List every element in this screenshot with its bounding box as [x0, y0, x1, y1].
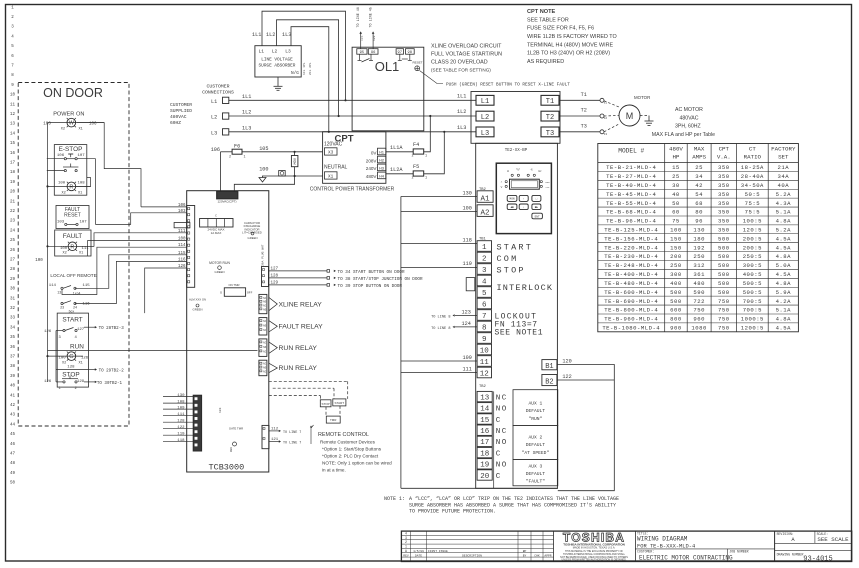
svg-text:SEE TABLE FOR: SEE TABLE FOR — [527, 17, 569, 23]
svg-text:14: 14 — [10, 132, 16, 136]
keypad buttons — [507, 195, 517, 201]
svg-text:480VAC: 480VAC — [170, 114, 187, 120]
wire 115 harness — [75, 255, 187, 288]
svg-text:NOTE: Only 1 option can be wir: NOTE: Only 1 option can be wired — [322, 460, 392, 465]
svg-text:40A: 40A — [778, 182, 790, 189]
svg-text:250:5: 250:5 — [743, 253, 762, 260]
svg-text:600: 600 — [670, 307, 682, 314]
wire 118 (door cable) — [163, 441, 193, 443]
svg-text:DEFAULT: DEFAULT — [526, 408, 546, 414]
svg-text:CONTROL POWER TRANSFORMER: CONTROL POWER TRANSFORMER — [310, 187, 395, 193]
svg-text:200:5: 200:5 — [743, 244, 762, 251]
pilot lamp inside E-STOP — [67, 182, 76, 191]
svg-text:29: 29 — [10, 278, 16, 282]
svg-text:"%": "%" — [516, 167, 521, 171]
svg-text:in at a time.: in at a time. — [322, 467, 346, 472]
svg-text:V.A.: V.A. — [717, 154, 731, 161]
svg-text:H4: H4 — [379, 175, 384, 179]
svg-text:t1: t1 — [604, 102, 608, 105]
svg-text:1L2: 1L2 — [242, 110, 251, 116]
svg-text:111: 111 — [178, 230, 186, 234]
board 120VAC input connector — [217, 191, 238, 198]
OL1 NC contact 95-96 — [359, 54, 361, 60]
wire surge absorber L3 tap — [291, 27, 329, 132]
svg-text:107: 107 — [80, 221, 88, 225]
svg-text:-%: -% — [529, 168, 533, 171]
svg-text:t3: t3 — [604, 133, 608, 136]
wire run relay feed (long horizontal) — [48, 350, 258, 352]
svg-text:480V: 480V — [366, 174, 378, 179]
interlock jumper 4-5 — [466, 278, 475, 291]
svg-text:MON: MON — [510, 198, 515, 201]
svg-text:126: 126 — [81, 357, 89, 361]
svg-text:RED: RED — [230, 447, 233, 452]
svg-text:120: 120 — [562, 358, 571, 364]
svg-text:180: 180 — [693, 235, 705, 242]
svg-text:NOTE 1:: NOTE 1: — [384, 496, 405, 502]
svg-text:TE-B-21-MLD-4: TE-B-21-MLD-4 — [606, 164, 656, 171]
OL1 NO contact 97-98 — [399, 54, 401, 60]
svg-text:42: 42 — [10, 404, 16, 408]
wire to 28TB2-3 — [84, 326, 96, 328]
wire 100 to drive — [401, 211, 477, 213]
svg-text:35: 35 — [10, 336, 16, 340]
contactor terminal T2 — [541, 111, 559, 121]
svg-text:1L2: 1L2 — [457, 109, 466, 115]
svg-text:HP: HP — [672, 154, 679, 161]
svg-text:119: 119 — [177, 432, 185, 436]
svg-text:4.5A: 4.5A — [776, 244, 792, 251]
svg-text:111: 111 — [463, 366, 472, 372]
svg-text:T1: T1 — [546, 98, 554, 106]
svg-text:OFF: OFF — [247, 292, 253, 295]
svg-text:16: 16 — [10, 152, 16, 156]
terminal TB2-13 — [477, 391, 492, 401]
wire 1L1 phase rail — [229, 99, 476, 101]
svg-text:108: 108 — [177, 400, 185, 404]
svg-text:MAX: MAX — [694, 146, 705, 153]
svg-text:1L1: 1L1 — [252, 32, 261, 38]
svg-text:X1: X1 — [79, 128, 83, 132]
svg-text:750: 750 — [693, 307, 705, 314]
svg-text:PUSH (GREEN) RESET BUTTON TO R: PUSH (GREEN) RESET BUTTON TO RESET X-LIN… — [446, 82, 570, 87]
svg-text:RATIO: RATIO — [744, 154, 762, 161]
board lower-left cable connector — [193, 395, 201, 451]
contactor terminal L3 — [476, 127, 494, 137]
wire bus to drive terminals — [400, 197, 402, 489]
wire 119 (door cable) — [163, 434, 193, 436]
svg-text:DRAWING NUMBER: DRAWING NUMBER — [777, 552, 804, 556]
svg-text:NO: NO — [496, 462, 508, 470]
svg-text:192: 192 — [693, 244, 705, 251]
svg-text:41: 41 — [10, 394, 16, 398]
svg-text:5.2A: 5.2A — [776, 191, 792, 198]
svg-text:60HZ: 60HZ — [170, 120, 181, 126]
svg-text:1A MAX: 1A MAX — [211, 231, 222, 235]
svg-text:TE-B-45-MLD-4: TE-B-45-MLD-4 — [606, 191, 656, 198]
svg-text:118: 118 — [177, 439, 185, 443]
svg-text:MAX FLA and HP per Table: MAX FLA and HP per Table — [652, 132, 715, 138]
svg-text:TO 38 START/STOP JUNCTION ON: TO 38 START/STOP JUNCTION ON DOOR — [338, 277, 424, 282]
svg-text:TE-B-220-MLD-4: TE-B-220-MLD-4 — [604, 244, 658, 251]
svg-text:111: 111 — [82, 247, 90, 251]
svg-text:106: 106 — [89, 123, 97, 127]
svg-text:MADE IN HOUSTON, TEXAS U.S.A.: MADE IN HOUSTON, TEXAS U.S.A. — [573, 545, 616, 549]
svg-text:NC: NC — [496, 394, 508, 402]
wire 122 (door cable) — [163, 428, 193, 430]
pushbutton FAULT RESET — [56, 206, 89, 229]
svg-text:CUSTOMER: CUSTOMER — [170, 102, 192, 108]
svg-text:ON DOOR: ON DOOR — [43, 86, 103, 100]
terminal B2 — [542, 375, 557, 386]
svg-text:2: 2 — [229, 156, 231, 160]
svg-text:80: 80 — [695, 209, 703, 216]
svg-text:129: 129 — [77, 380, 85, 384]
svg-text:AUX 1: AUX 1 — [529, 401, 543, 407]
terminal TB2-16 — [477, 425, 492, 435]
svg-text:TO 28TB2-3: TO 28TB2-3 — [99, 327, 125, 331]
svg-text:500: 500 — [718, 235, 730, 242]
wire 100 bus (door) — [48, 122, 105, 124]
svg-text:L3: L3 — [285, 48, 291, 54]
svg-text:MOTOR: MOTOR — [634, 95, 650, 100]
svg-text:TO 39 STOP BUTTON ON DOOR: TO 39 STOP BUTTON ON DOOR — [338, 284, 403, 289]
svg-text:16: 16 — [480, 428, 490, 436]
wire 118 to drive — [401, 243, 477, 245]
svg-text:DESCRIPTION: DESCRIPTION — [462, 555, 482, 558]
ground (surge absorber N/G) — [277, 77, 279, 86]
svg-text:15: 15 — [480, 417, 490, 425]
terminal TB1-1 — [477, 241, 491, 252]
wire estop row2 — [47, 170, 64, 172]
svg-text:15: 15 — [10, 142, 16, 146]
svg-text:"FAULT": "FAULT" — [526, 479, 546, 485]
board connector 112/121 — [262, 425, 269, 448]
svg-text:RESET: RESET — [64, 213, 81, 219]
svg-text:1200:5: 1200:5 — [741, 325, 764, 332]
svg-text:FUSE SIZE FOR F4, F5, F6: FUSE SIZE FOR F4, F5, F6 — [527, 26, 594, 32]
svg-text:FAULT: FAULT — [63, 233, 83, 240]
svg-text:21A: 21A — [778, 164, 790, 171]
terminal TB1-11 — [477, 356, 491, 367]
svg-text:126: 126 — [44, 330, 52, 334]
svg-text:103: 103 — [219, 407, 222, 413]
svg-text:118: 118 — [463, 237, 472, 243]
terminal TB1-6 — [477, 298, 491, 309]
svg-text:DEFAULT: DEFAULT — [526, 442, 546, 448]
svg-text:L2: L2 — [211, 115, 217, 121]
svg-text:250: 250 — [670, 262, 682, 269]
svg-text:44: 44 — [10, 423, 16, 427]
svg-text:F6: F6 — [234, 144, 240, 150]
terminal TB2-14 — [477, 403, 492, 413]
svg-text:AUX 2: AUX 2 — [529, 435, 543, 441]
svg-text:W: W — [69, 121, 75, 127]
wire 103 harness — [95, 213, 186, 225]
svg-text:GREEN: GREEN — [215, 270, 225, 274]
svg-text:N/G: N/G — [291, 71, 299, 76]
svg-text:25: 25 — [672, 173, 680, 180]
svg-text:10: 10 — [10, 94, 16, 98]
svg-text:98: 98 — [408, 51, 413, 55]
svg-text:25: 25 — [10, 239, 16, 243]
svg-text:WIRE 1L2B IS FACTORY WIRED TO: WIRE 1L2B IS FACTORY WIRED TO — [527, 34, 617, 40]
terminal TB2-20 — [477, 470, 492, 480]
svg-text:18: 18 — [480, 450, 489, 458]
wire 111 harness — [77, 233, 187, 247]
svg-text:NO: NO — [496, 406, 508, 414]
svg-text:X1: X1 — [328, 175, 334, 180]
svg-text:GREEN: GREEN — [248, 236, 258, 240]
svg-text:*Option 2: PLC Dry Contact: *Option 2: PLC Dry Contact — [322, 453, 379, 458]
svg-text:480VAC: 480VAC — [680, 115, 699, 121]
svg-text:A1: A1 — [480, 195, 490, 203]
svg-text:TCB3000: TCB3000 — [209, 463, 245, 473]
svg-text:(SEE TABLE FOR SETTING): (SEE TABLE FOR SETTING) — [431, 68, 491, 73]
svg-text:RUN RELAY: RUN RELAY — [279, 365, 318, 372]
svg-text:F4: F4 — [413, 142, 419, 148]
svg-text:AMPS: AMPS — [692, 154, 706, 161]
svg-text:NC: NC — [496, 428, 508, 436]
svg-text:GATE TMR: GATE TMR — [229, 427, 243, 431]
svg-text:SEE SCALE: SEE SCALE — [817, 536, 849, 543]
svg-text:TO LINE 7: TO LINE 7 — [283, 431, 301, 435]
svg-text:126: 126 — [178, 265, 186, 269]
svg-text:TE-B-40-MLD-4: TE-B-40-MLD-4 — [606, 182, 656, 189]
svg-text:FIRST ISSUE: FIRST ISSUE — [428, 550, 448, 553]
svg-text:"RUN": "RUN" — [529, 416, 543, 422]
svg-text:127: 127 — [77, 328, 85, 332]
svg-text:L3: L3 — [211, 131, 217, 137]
terminal TB1-5 — [477, 287, 491, 298]
svg-text:106: 106 — [178, 204, 186, 208]
contactor terminal T3 — [541, 127, 559, 137]
svg-text:500: 500 — [670, 289, 682, 296]
svg-text:G: G — [69, 354, 73, 360]
svg-text:100: 100 — [60, 247, 68, 251]
svg-text:111: 111 — [177, 413, 185, 417]
svg-text:ALM XXX ON: ALM XXX ON — [189, 298, 206, 302]
svg-text:4: 4 — [482, 278, 487, 286]
svg-text:CHK: CHK — [534, 555, 540, 558]
svg-text:CPT NOTE: CPT NOTE — [527, 9, 556, 15]
svg-text:40: 40 — [672, 191, 680, 198]
svg-text:REMOTE CONTROL: REMOTE CONTROL — [318, 432, 369, 438]
svg-text:GREEN: GREEN — [193, 308, 203, 312]
svg-text:108: 108 — [78, 182, 86, 186]
svg-text:17: 17 — [10, 162, 16, 166]
svg-text:43: 43 — [10, 414, 16, 418]
svg-text:30A PLUG WHT: 30A PLUG WHT — [262, 244, 265, 266]
svg-text:5.9A: 5.9A — [776, 289, 792, 296]
svg-text:700:5: 700:5 — [743, 298, 762, 305]
svg-text:MOV: MOV — [294, 157, 298, 164]
svg-text:75:5: 75:5 — [745, 209, 760, 216]
svg-text:C: C — [496, 450, 502, 458]
svg-text:116: 116 — [178, 258, 186, 262]
svg-text:START: START — [62, 317, 82, 324]
svg-text:X1: X1 — [78, 192, 82, 196]
svg-text:H2: H2 — [379, 160, 384, 164]
svg-text:Remote Customer Devices: Remote Customer Devices — [320, 439, 376, 444]
svg-text:18: 18 — [10, 171, 16, 175]
svg-text:93-4015: 93-4015 — [803, 555, 832, 563]
svg-text:SURGE ABSORBER HAS ABSORBED A: SURGE ABSORBER HAS ABSORBED A SURGE THAT… — [409, 502, 616, 508]
svg-text:L2: L2 — [481, 114, 489, 122]
svg-text:350: 350 — [718, 209, 730, 216]
svg-text:38: 38 — [10, 365, 16, 369]
svg-text:120VAC: 120VAC — [324, 142, 343, 148]
board left terminal strip — [187, 206, 195, 288]
remote STOP button — [320, 400, 331, 407]
svg-text:FACTORY: FACTORY — [771, 146, 796, 153]
contactor terminal L2 — [476, 111, 494, 121]
lamp FAULT — [55, 230, 91, 256]
revision / scale / drawing number cells — [774, 531, 776, 561]
wire estop row1 left to bus — [47, 158, 64, 160]
svg-text:TE-B-125-MLD-4: TE-B-125-MLD-4 — [604, 226, 658, 233]
svg-text:TO LINE 8: TO LINE 8 — [431, 327, 450, 331]
varistor MOV — [291, 156, 298, 167]
pushbutton E-STOP — [54, 145, 87, 196]
svg-text:240V: 240V — [366, 166, 378, 171]
svg-text:350: 350 — [718, 164, 730, 171]
svg-text:X2: X2 — [62, 192, 66, 196]
svg-text:TE-B-800-MLD-4: TE-B-800-MLD-4 — [604, 307, 658, 314]
wire 128 (door cable) — [163, 421, 193, 423]
svg-text:T3: T3 — [546, 130, 554, 138]
svg-text:12: 12 — [10, 113, 16, 117]
svg-text:RUN RELAY: RUN RELAY — [279, 345, 318, 352]
svg-text:17: 17 — [480, 439, 489, 447]
svg-text:FULL VOLTAGE START/RUN: FULL VOLTAGE START/RUN — [431, 52, 502, 58]
svg-text:CONNECTIONS: CONNECTIONS — [202, 90, 234, 96]
svg-text:MOTOR RUN: MOTOR RUN — [209, 261, 230, 265]
svg-text:400:5: 400:5 — [743, 271, 762, 278]
svg-text:500: 500 — [718, 271, 730, 278]
svg-text:L1: L1 — [211, 99, 217, 105]
drive unit TE2-XX-BP outline — [476, 143, 558, 488]
svg-text:◄■: ◄■ — [510, 206, 514, 209]
svg-text:50: 50 — [672, 200, 680, 207]
svg-text:4.5A: 4.5A — [776, 235, 792, 242]
svg-text:120VAC(CPT): 120VAC(CPT) — [218, 200, 237, 204]
svg-text:122: 122 — [562, 374, 571, 380]
svg-text:OL1: OL1 — [375, 59, 400, 74]
svg-text:B2: B2 — [545, 378, 553, 386]
svg-text:H3: H3 — [379, 167, 384, 171]
svg-text:50:5: 50:5 — [745, 191, 760, 198]
svg-text:208V: 208V — [366, 158, 378, 163]
svg-text:500: 500 — [718, 244, 730, 251]
svg-text:TO 29TB2-2: TO 29TB2-2 — [99, 369, 125, 373]
svg-text:31: 31 — [10, 297, 16, 301]
inline connector on 100 wire — [279, 171, 286, 177]
svg-text:1: 1 — [425, 177, 427, 181]
svg-text:124: 124 — [462, 321, 471, 327]
svg-text:115: 115 — [178, 252, 186, 256]
svg-text:13: 13 — [480, 394, 490, 402]
svg-text:106: 106 — [57, 154, 65, 158]
svg-text:250: 250 — [693, 253, 705, 260]
svg-text:32: 32 — [10, 307, 16, 311]
svg-text:12: 12 — [480, 370, 489, 378]
svg-text:95: 95 — [360, 51, 365, 55]
svg-text:500: 500 — [670, 298, 682, 305]
wire 108 (door cable) — [163, 402, 193, 404]
svg-text:150: 150 — [670, 235, 682, 242]
svg-text:5: 5 — [482, 290, 487, 298]
svg-text:500: 500 — [718, 253, 730, 260]
svg-text:20: 20 — [10, 191, 16, 195]
svg-text:1CL 1PL: 1CL 1PL — [303, 62, 306, 75]
svg-text:34-50A: 34-50A — [741, 182, 764, 189]
wire 130 to drive — [401, 196, 477, 198]
contactor enclosure — [471, 92, 560, 144]
svg-text:75:5: 75:5 — [745, 200, 760, 207]
svg-text:START: START — [497, 242, 534, 252]
title block frame — [401, 531, 851, 561]
svg-text:590: 590 — [693, 289, 705, 296]
svg-text:103: 103 — [178, 210, 186, 214]
keypad panel — [496, 163, 551, 233]
terminal TB1-10 — [477, 344, 491, 355]
svg-text:1: 1 — [482, 244, 487, 252]
svg-text:100:5: 100:5 — [743, 218, 762, 225]
contactor terminal L1 — [476, 95, 494, 105]
svg-text:1000:5: 1000:5 — [741, 316, 764, 323]
svg-text:1L3: 1L3 — [242, 126, 251, 132]
terminal TB1-12 — [477, 367, 491, 378]
svg-text:500:5: 500:5 — [743, 280, 762, 287]
svg-text:130: 130 — [463, 190, 472, 196]
svg-text:TE-B-248-MLD-4: TE-B-248-MLD-4 — [604, 262, 658, 269]
svg-text:NO: NO — [496, 439, 508, 447]
wire 109 to drive TB1-11 — [401, 360, 477, 362]
terminal TB2-17 — [477, 436, 492, 446]
CPT terminal X3 — [325, 148, 338, 155]
svg-text:115: 115 — [83, 284, 91, 288]
terminal TB2-18 — [477, 447, 492, 457]
terminal TB1-3 — [477, 264, 491, 275]
svg-text:L2: L2 — [272, 48, 278, 54]
svg-text:T1: T1 — [581, 92, 587, 98]
svg-text:TE-B-96-MLD-4: TE-B-96-MLD-4 — [606, 218, 656, 225]
svg-text:19: 19 — [480, 462, 489, 470]
svg-text:2: 2 — [412, 177, 414, 181]
svg-text:68: 68 — [695, 200, 703, 207]
svg-text:XLINE RELAY: XLINE RELAY — [279, 301, 323, 308]
on-door panel (dashed enclosure) — [18, 83, 129, 427]
svg-text:49: 49 — [10, 472, 16, 476]
svg-text:SET: SET — [778, 154, 789, 161]
svg-text:RUN: RUN — [70, 344, 84, 351]
svg-text:ON: ON — [76, 111, 84, 117]
svg-text:18-25A: 18-25A — [741, 164, 764, 171]
svg-text:34A: 34A — [778, 173, 790, 180]
svg-text:128: 128 — [67, 365, 75, 369]
svg-text:■►: ■► — [535, 206, 539, 209]
svg-text:500: 500 — [718, 262, 730, 269]
svg-text:33: 33 — [10, 317, 16, 321]
svg-text:LINE VOLTAGE: LINE VOLTAGE — [261, 58, 293, 63]
svg-text:350: 350 — [718, 191, 730, 198]
svg-text:750: 750 — [718, 298, 730, 305]
svg-text:7: 7 — [482, 313, 487, 321]
svg-text:30: 30 — [672, 182, 680, 189]
wire 1L2 phase rail — [229, 115, 476, 117]
svg-text:ELECTRIC MOTOR CONTRACTING: ELECTRIC MOTOR CONTRACTING — [639, 554, 733, 561]
